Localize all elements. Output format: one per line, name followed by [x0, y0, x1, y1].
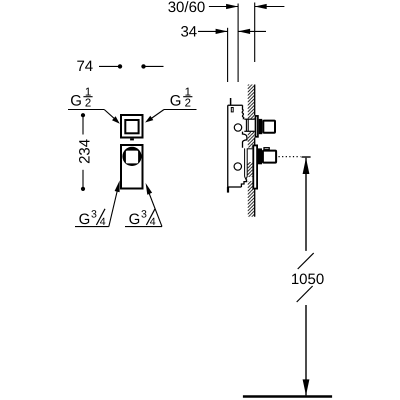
dimension 34 line and arrow	[198, 29, 228, 34]
valve body side: outline	[228, 105, 247, 187]
dimension 30/60 line and arrow	[209, 4, 238, 9]
valve body side: top tick	[230, 98, 232, 106]
cartridge ring	[122, 147, 141, 166]
svg-text:30/60: 30/60	[168, 0, 206, 16]
valve body side: notch	[231, 108, 233, 112]
1050 dimension line upper	[305, 158, 307, 251]
lower handle	[263, 151, 276, 163]
dimension 234 top segment	[82, 115, 84, 134]
leader G 1/2 left	[104, 110, 120, 124]
1050 bottom arrow	[303, 379, 310, 395]
1050 upper break slash	[298, 253, 314, 269]
screw hole lower	[234, 163, 241, 170]
dimension 74 right line	[144, 65, 164, 67]
upper sleeve	[244, 119, 254, 131]
dimension 234 bottom dot	[81, 187, 85, 191]
screw hole upper	[234, 124, 241, 131]
upper escutcheon	[256, 116, 258, 137]
leader G 3/4 right	[146, 183, 162, 227]
dimension 234 bottom segment	[82, 170, 84, 189]
wall face line	[254, 85, 256, 217]
front view: valve body	[121, 145, 143, 189]
svg-text:1050: 1050	[291, 271, 324, 288]
dimension 34 right arrow	[238, 29, 266, 34]
dimension 74 right dot	[141, 64, 145, 68]
svg-text:G: G	[70, 92, 82, 109]
svg-text:G: G	[129, 211, 141, 228]
dimension 234 top dot	[81, 113, 85, 117]
svg-text:3: 3	[91, 209, 97, 221]
extension line v2	[237, 4, 239, 83]
lower sleeve	[245, 148, 247, 176]
svg-text:3: 3	[141, 209, 147, 221]
extension line v1	[227, 28, 229, 82]
lower escutcheon	[253, 145, 257, 188]
dimension 74 left dot	[118, 64, 122, 68]
1050 dimension line lower	[305, 305, 307, 395]
svg-text:G: G	[79, 211, 91, 228]
wall hatch segments	[247, 85, 255, 217]
svg-text:2: 2	[185, 97, 191, 109]
label G 1/2 right	[164, 86, 197, 109]
svg-text:74: 74	[76, 58, 93, 75]
label G 1/2 left	[68, 86, 104, 109]
lower collar	[258, 148, 262, 164]
svg-text:34: 34	[180, 24, 197, 41]
tick below square	[130, 139, 134, 141]
upper collar	[259, 119, 263, 134]
upper handle	[263, 121, 275, 133]
front view: inner square	[125, 120, 138, 133]
extension line v3	[254, 3, 256, 63]
dotted reference line	[279, 156, 301, 158]
1050 top arrow	[303, 158, 310, 174]
front view: top square outlet	[121, 115, 143, 138]
lower handle bump	[264, 148, 269, 150]
floor line	[243, 395, 332, 397]
leader G 1/2 right	[145, 110, 164, 123]
valve body side: bottom-left leg	[227, 187, 229, 193]
dimension 74 left line	[99, 65, 120, 67]
label G 3/4 left	[75, 209, 109, 229]
svg-text:G: G	[170, 92, 182, 109]
1050 lower break slash	[297, 286, 313, 302]
1050 top tick	[302, 156, 311, 158]
label G 3/4 right	[125, 209, 162, 229]
svg-text:2: 2	[85, 97, 91, 109]
svg-text:234: 234	[77, 139, 94, 164]
leader G 3/4 left	[109, 180, 120, 226]
dimension 30/60 right arrow	[255, 4, 285, 9]
